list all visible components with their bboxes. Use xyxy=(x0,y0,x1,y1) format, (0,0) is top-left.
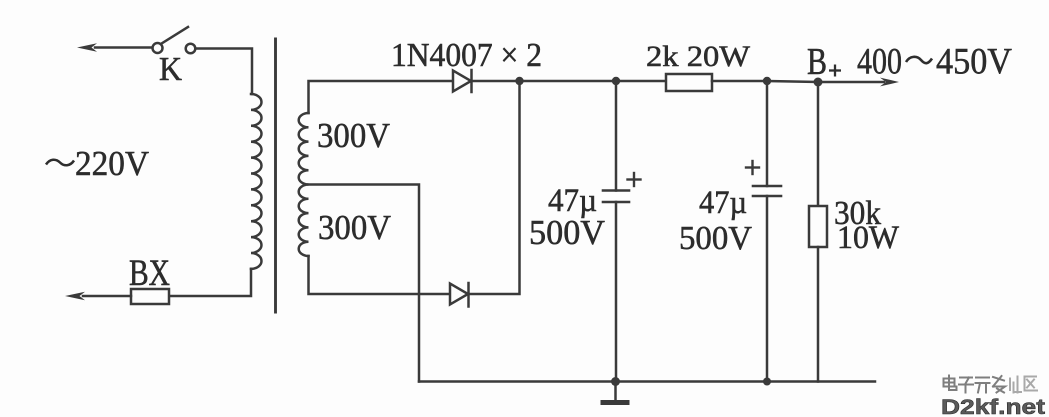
resistor R1 2k 20W xyxy=(666,74,712,91)
node junction dot C2 top xyxy=(763,77,771,85)
wire C2 node to B+ node xyxy=(767,81,818,82)
svg-text:220V: 220V xyxy=(75,144,149,183)
capacitor C2 47u 500V xyxy=(766,81,769,186)
wire D2 cathode up to top rail xyxy=(469,81,520,294)
svg-text:47µ: 47µ xyxy=(699,185,747,221)
wire secondary top lead xyxy=(309,81,454,113)
node junction dot C1 top xyxy=(612,77,620,85)
wire B+ output arrow line xyxy=(818,81,884,84)
svg-text:10W: 10W xyxy=(837,220,900,256)
node junction dot bottom C2 xyxy=(763,378,771,386)
node junction dot bottom C1 xyxy=(611,377,620,386)
svg-text:1N4007 × 2: 1N4007 × 2 xyxy=(391,37,542,74)
diode D2 1N4007 xyxy=(450,284,468,305)
node C1 plus sign xyxy=(628,178,641,180)
node junction dot B+ xyxy=(814,78,823,87)
transformer T1 secondary winding xyxy=(299,113,309,256)
wire bottom rail xyxy=(419,380,875,383)
label ~220V tilde xyxy=(46,160,74,166)
svg-text:450V: 450V xyxy=(936,42,1012,83)
wire AC input top lead xyxy=(95,46,152,49)
svg-text:300V: 300V xyxy=(318,208,391,247)
resistor R2 30k 10W xyxy=(817,82,820,206)
wire switch to transformer primary top xyxy=(196,49,253,95)
wire primary bottom to fuse xyxy=(169,269,251,296)
capacitor C1 47u 500V xyxy=(615,81,618,191)
watermark dianzi kaifa shequ xyxy=(944,376,1006,393)
svg-text:500V: 500V xyxy=(679,220,752,257)
wire secondary bottom lead xyxy=(309,256,451,294)
svg-text:500V: 500V xyxy=(529,213,605,252)
svg-text:BX: BX xyxy=(129,253,170,294)
wire fuse to AC input bottom lead xyxy=(83,295,131,298)
diode D1 1N4007 xyxy=(453,71,471,92)
svg-text:2k 20W: 2k 20W xyxy=(646,40,751,73)
label B plus subscript xyxy=(829,65,841,77)
fuse BX xyxy=(131,289,169,304)
svg-text:B: B xyxy=(807,41,827,83)
transformer T1 primary winding xyxy=(251,94,262,269)
svg-text:D2kf.net: D2kf.net xyxy=(941,396,1045,417)
node output arrow xyxy=(880,78,899,87)
transformer T1 core xyxy=(274,39,277,312)
svg-text:K: K xyxy=(159,51,182,88)
node junction dot D1/D2 xyxy=(515,77,523,85)
node AC input top arrow xyxy=(77,43,97,52)
wire top rail to resistor xyxy=(616,80,666,83)
node AC input bottom arrow xyxy=(65,292,85,301)
svg-text:300V: 300V xyxy=(317,116,390,155)
wire secondary centre tap xyxy=(309,185,420,382)
ground xyxy=(614,382,617,400)
svg-text:400: 400 xyxy=(857,42,902,83)
node C2 plus sign xyxy=(746,166,759,168)
switch K xyxy=(153,43,163,53)
wire resistor to C2 node xyxy=(712,80,767,83)
label output tilde xyxy=(906,57,932,63)
wire D1 cathode to node xyxy=(472,80,617,83)
